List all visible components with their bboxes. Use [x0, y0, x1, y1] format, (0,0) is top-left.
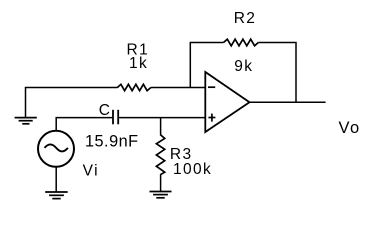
svg-text:Vi: Vi [83, 163, 99, 180]
source Vi (AC source circle) [38, 131, 74, 167]
wire: R2 left branch down to inverting node [190, 43, 223, 88]
wire: R3 to ground [160, 174, 162, 191]
wire: Vi top corner to capacitor C [56, 118, 112, 131]
capacitor C [113, 110, 118, 125]
ground G2 (under Vi) [45, 192, 67, 199]
svg-text:Vo: Vo [339, 119, 361, 137]
svg-text:9k: 9k [234, 58, 253, 75]
wire: inverting input net from ground corner to R1 [26, 88, 118, 118]
wire: R1 to op-amp inverting input [151, 87, 205, 89]
op-amp U1 [205, 72, 249, 132]
resistor R2 [224, 39, 259, 46]
wire: capacitor C to op-amp non-inverting input [119, 117, 205, 119]
wire: Vi bottom to ground [55, 167, 57, 192]
source Vi sine symbol [45, 144, 68, 151]
resistor R3 [156, 135, 164, 175]
svg-text:100k: 100k [173, 161, 212, 178]
svg-text:C: C [99, 102, 112, 119]
svg-text:R2: R2 [234, 10, 257, 27]
svg-text:15.9nF: 15.9nF [85, 132, 139, 150]
resistor R1 [117, 84, 150, 90]
wire: R2 right branch down to output node [258, 43, 296, 103]
svg-text:1k: 1k [129, 55, 148, 72]
op-amp U1 minus input symbol [208, 86, 215, 88]
wire: op-amp output to Vo [250, 101, 326, 103]
wire: non-inverting node down to R3 [160, 118, 162, 136]
ground G3 (under R3) [150, 192, 172, 198]
ground G1 (top left) [15, 118, 37, 124]
op-amp U1 plus input symbol [208, 114, 215, 122]
